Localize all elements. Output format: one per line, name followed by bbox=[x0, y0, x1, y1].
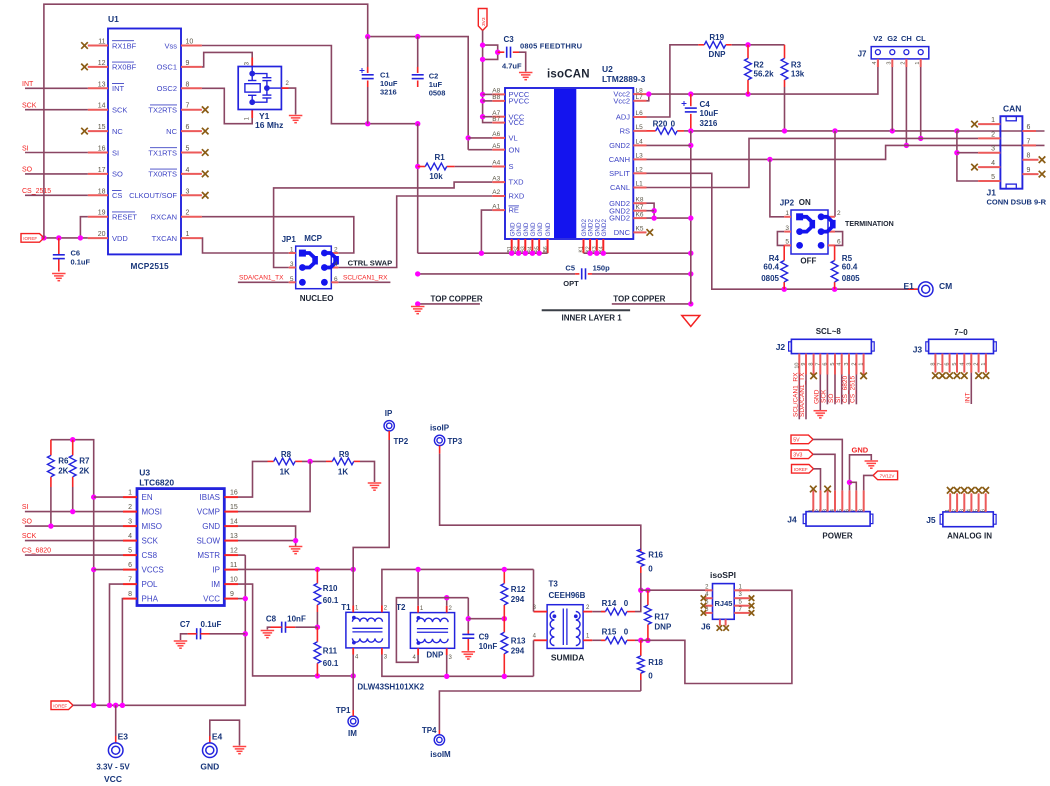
svg-text:TX2RTS: TX2RTS bbox=[148, 106, 177, 115]
svg-text:LTC6820: LTC6820 bbox=[139, 478, 174, 488]
wire T1 pin 4 to IM rail bbox=[352, 655, 354, 676]
svg-text:B7: B7 bbox=[492, 116, 500, 123]
svg-text:IP: IP bbox=[385, 409, 393, 418]
svg-text:C9: C9 bbox=[479, 633, 490, 642]
wire RESET to IOREF rail bbox=[80, 217, 87, 238]
svg-text:Vss: Vss bbox=[164, 41, 177, 50]
svg-text:3: 3 bbox=[186, 188, 190, 195]
U1 pin 5 (TX1RTS) stub bbox=[181, 152, 202, 154]
junction dot CH on CANH bbox=[904, 143, 909, 148]
svg-text:RXCAN: RXCAN bbox=[151, 213, 177, 222]
svg-text:INT: INT bbox=[965, 393, 972, 404]
U2 pin A6 (VL) stub bbox=[492, 137, 505, 139]
wire 5V flag to J4 pin 5 bbox=[813, 439, 842, 490]
ground symbol C8 bbox=[261, 631, 275, 638]
wire net CS_6820 to CS8 bbox=[25, 554, 123, 556]
C4 polarity + bbox=[682, 101, 687, 106]
svg-text:15: 15 bbox=[230, 504, 238, 511]
wire JP2 pins 3-5 loop bbox=[777, 232, 784, 246]
svg-text:L2: L2 bbox=[636, 167, 644, 174]
svg-text:B6: B6 bbox=[543, 246, 549, 252]
svg-text:B8: B8 bbox=[492, 94, 500, 101]
wire K7 tap bbox=[647, 210, 655, 212]
svg-text:5: 5 bbox=[952, 363, 958, 366]
svg-text:INT: INT bbox=[112, 84, 125, 93]
svg-text:7: 7 bbox=[1027, 138, 1031, 145]
resistor R7 zigzag bbox=[69, 455, 76, 476]
svg-text:60.4: 60.4 bbox=[763, 262, 779, 271]
svg-text:TP4: TP4 bbox=[422, 726, 437, 735]
wire net CS_2515 to U1 bbox=[25, 194, 88, 196]
svg-text:0: 0 bbox=[624, 628, 629, 637]
wire R15 to isoIM node bbox=[635, 639, 641, 641]
svg-text:E4: E4 bbox=[212, 732, 223, 742]
svg-text:SDA/CAN1_TX: SDA/CAN1_TX bbox=[799, 372, 806, 417]
svg-text:J3: J3 bbox=[913, 344, 923, 354]
T1 pin 4 stub bbox=[352, 648, 354, 655]
svg-text:OSC1: OSC1 bbox=[157, 63, 177, 72]
svg-text:K7: K7 bbox=[636, 204, 644, 211]
U2 pin L1 (CANL) stub bbox=[633, 187, 646, 189]
wire T1 pin 3 to isoIM-side rail bbox=[382, 655, 534, 677]
wire red lead into E1 bbox=[908, 288, 918, 290]
no-connect X J2 pin 8 bbox=[810, 373, 817, 380]
no-connect X RJ45 left pin bbox=[701, 610, 707, 616]
wire VCC to vertical bbox=[238, 598, 245, 600]
no-connect X J5 pin 6 bbox=[982, 487, 989, 494]
no-connect X J3 pin 2 bbox=[975, 372, 982, 379]
svg-text:SCL/CAN1_RX: SCL/CAN1_RX bbox=[343, 275, 388, 282]
capacitor C4 leads bbox=[690, 94, 692, 106]
svg-text:3: 3 bbox=[128, 519, 132, 526]
RJ45 left pin stubs bbox=[705, 590, 713, 613]
svg-text:CM: CM bbox=[939, 281, 952, 291]
U3 pin 8 (PHA) stub bbox=[123, 598, 137, 600]
U2 pin L4 (GND2) stub bbox=[633, 144, 646, 146]
svg-text:A3: A3 bbox=[492, 175, 500, 182]
svg-text:L7: L7 bbox=[636, 94, 644, 101]
wire L4 GND2 tap bbox=[647, 144, 691, 146]
svg-text:E1: E1 bbox=[904, 281, 915, 291]
svg-text:CANH: CANH bbox=[609, 155, 630, 164]
wire JP2 pin 2 to GND2 rail bbox=[834, 131, 836, 217]
U3 pin 15 (VCMP) stub bbox=[224, 511, 238, 513]
capacitor C8 plates bbox=[281, 622, 283, 633]
J3 pin stubs bbox=[935, 354, 986, 373]
wire R18 to TP4 bbox=[439, 691, 640, 730]
wire top rail C1-C2-VL bbox=[368, 37, 469, 150]
U1 pin 9 (OSC1) stub bbox=[181, 66, 202, 68]
svg-text:T3: T3 bbox=[549, 580, 559, 589]
U2 pin L8 (Vcc2) stub bbox=[633, 93, 646, 95]
U2 pin A1 (RE) stub bbox=[492, 209, 505, 211]
J1 left pin stubs bbox=[978, 124, 1000, 181]
turret TP1 (IM) bbox=[348, 716, 358, 726]
svg-text:POWER: POWER bbox=[822, 532, 852, 541]
wire C2 to R1 to GND rail bbox=[417, 124, 419, 254]
ground symbol C9 bbox=[462, 652, 476, 659]
svg-text:CS_2515: CS_2515 bbox=[850, 376, 857, 403]
svg-text:6: 6 bbox=[822, 363, 828, 366]
svg-text:3.3V - 5V: 3.3V - 5V bbox=[96, 763, 130, 772]
svg-text:5V: 5V bbox=[793, 438, 800, 444]
resistor R13 leads bbox=[503, 619, 505, 633]
ic U3 LTC6820 body bbox=[137, 489, 224, 606]
svg-text:J2: J2 bbox=[776, 342, 786, 352]
no-connect X J1 pin 9 bbox=[1039, 171, 1046, 178]
resistor R17 zigzag bbox=[645, 605, 652, 624]
Y1 pin 2 stub bbox=[281, 87, 288, 89]
svg-text:RX0BF: RX0BF bbox=[112, 63, 137, 72]
no-connect X on U1 right pin row 5 bbox=[202, 128, 209, 135]
svg-text:10: 10 bbox=[186, 39, 194, 46]
svg-text:2: 2 bbox=[128, 504, 132, 511]
svg-text:GND2: GND2 bbox=[601, 219, 608, 237]
wire SPLIT to termination rail bbox=[647, 173, 919, 289]
svg-text:2: 2 bbox=[952, 509, 958, 512]
U2 pin L3 (CANH) stub bbox=[633, 158, 646, 160]
U1 pin 19 (RESET) stub bbox=[88, 216, 108, 218]
wire CANH to J1 pin 7 bbox=[647, 145, 1045, 159]
junction dot T1 pin4 / TP1 bbox=[351, 673, 356, 678]
U3 pin 13 (SLOW) stub bbox=[224, 540, 238, 542]
U2 pin B7 (VCC) stub bbox=[492, 122, 505, 124]
resistor R16 zigzag bbox=[637, 549, 644, 566]
junction dot SLOW bbox=[293, 538, 298, 543]
resistor R18 leads bbox=[640, 640, 642, 656]
junction dot C3 loop bottom bbox=[480, 57, 485, 62]
ground symbol C7 bbox=[174, 641, 188, 648]
junction dot R20/C4 node bbox=[688, 128, 693, 133]
turret TP4 (isoIM) bbox=[434, 735, 444, 745]
svg-text:A4: A4 bbox=[492, 160, 500, 167]
wire net SI to MOSI bbox=[25, 511, 123, 513]
wire T2 pin 3 to isoIM rail bbox=[446, 655, 448, 676]
junction dot R1 left bbox=[415, 164, 420, 169]
power flag IOREF (J4) bbox=[792, 465, 814, 474]
junction dot rail PHA bbox=[120, 703, 125, 708]
svg-text:1: 1 bbox=[945, 509, 951, 512]
svg-text:5: 5 bbox=[128, 548, 132, 555]
junction dot C3 left lead bbox=[495, 50, 500, 55]
junction dot C6 tap bbox=[56, 235, 61, 240]
junction dot GND pin on rail bbox=[523, 251, 528, 256]
wire K6 to GND2 spine bbox=[647, 217, 691, 219]
no-connect X J5 pin 2 bbox=[954, 487, 961, 494]
wire C7 left to ground bbox=[188, 633, 197, 635]
U1 pin 4 (TX0RTS) stub bbox=[181, 173, 202, 175]
wire R1 to U2 pin A4 bbox=[455, 166, 493, 168]
junction dot mid node to divider bbox=[466, 616, 471, 621]
svg-text:MCP: MCP bbox=[304, 234, 322, 243]
resistor R7 leads bbox=[72, 440, 74, 456]
svg-text:3216: 3216 bbox=[380, 88, 397, 97]
svg-text:S: S bbox=[509, 162, 514, 171]
svg-text:OSC2: OSC2 bbox=[157, 84, 177, 93]
U1 pin 15 (NC) stub bbox=[88, 130, 108, 132]
junction dot A7 bbox=[480, 114, 485, 119]
svg-text:K1: K1 bbox=[579, 246, 585, 252]
U1 pin 7 (TX2RTS) stub bbox=[181, 109, 202, 111]
svg-text:CTRL SWAP: CTRL SWAP bbox=[348, 259, 393, 268]
junction dot top rail C1 bbox=[365, 34, 370, 39]
ground symbol R9 bbox=[368, 483, 382, 490]
U1 pin 18 (CS) stub bbox=[88, 194, 108, 196]
svg-text:SI: SI bbox=[835, 397, 842, 403]
wire TP3 to R16 bbox=[439, 446, 441, 454]
svg-text:13: 13 bbox=[98, 81, 106, 88]
wire net SCK to U3 bbox=[25, 540, 123, 542]
svg-text:2: 2 bbox=[837, 210, 841, 217]
J7 pin stubs bbox=[878, 59, 921, 67]
no-connect X J4 pin 3 bbox=[824, 486, 831, 493]
resistor R2 zigzag bbox=[745, 58, 752, 79]
svg-text:isoCAN: isoCAN bbox=[547, 69, 590, 81]
wire OSC1 to Y1 pin 3 bbox=[202, 52, 252, 67]
svg-text:NUCLEO: NUCLEO bbox=[300, 294, 334, 303]
U1 pin 3 (CLKOUT/SOF) stub bbox=[181, 194, 202, 196]
wire E3 to IOREF rail bbox=[115, 705, 117, 736]
svg-text:2: 2 bbox=[991, 131, 995, 138]
svg-text:R15: R15 bbox=[602, 628, 617, 637]
svg-text:9: 9 bbox=[186, 60, 190, 67]
J5 pin stubs bbox=[950, 493, 986, 512]
svg-text:TP2: TP2 bbox=[394, 437, 409, 446]
wire JP1 pin 6 net SCL/CAN1_RX bbox=[338, 281, 390, 283]
U1 pin 17 (SO) stub bbox=[88, 173, 108, 175]
svg-text:56.2k: 56.2k bbox=[754, 70, 775, 79]
wire SLOW tap bbox=[238, 540, 296, 542]
svg-text:4: 4 bbox=[334, 261, 338, 268]
svg-text:1K: 1K bbox=[280, 468, 290, 477]
junction dot K6 spine bbox=[688, 215, 693, 220]
wire R8-R9 node bbox=[302, 460, 326, 462]
svg-text:SCK: SCK bbox=[22, 103, 37, 110]
wire A7 tap bbox=[483, 116, 493, 118]
junction dot C3 loop top bbox=[480, 42, 485, 47]
U2 bottom GND2 pins K1-K4 bbox=[584, 239, 604, 253]
svg-text:INT: INT bbox=[22, 81, 34, 88]
T1 pin 1 stub bbox=[352, 606, 354, 613]
no-connect X RJ45 shield 2 bbox=[723, 625, 729, 631]
wire C3 to ground bbox=[519, 52, 526, 71]
capacitor C2 plates bbox=[412, 74, 424, 76]
no-connect X on U1 pin 11 bbox=[81, 42, 88, 49]
svg-text:0805: 0805 bbox=[761, 274, 779, 283]
wire isoIP to RJ45 pin 2 bbox=[648, 589, 705, 591]
junction dot TOP COPPER right bbox=[688, 301, 693, 306]
junction dot isoIM node A bbox=[638, 638, 643, 643]
U2 pin A8 (PVCC) stub bbox=[492, 93, 505, 95]
connector J6 RJ45 body bbox=[713, 584, 735, 620]
wire J4 pin 7 to gnd join bbox=[850, 482, 857, 490]
wire net SI to U1 bbox=[25, 152, 88, 154]
svg-text:20: 20 bbox=[98, 231, 106, 238]
wire IM to IM rail bbox=[238, 584, 353, 676]
svg-text:R19: R19 bbox=[709, 33, 724, 42]
no-connect X RJ45 left pin bbox=[701, 603, 707, 609]
no-connect X J5 pin 3 bbox=[961, 487, 968, 494]
wire 3V3 down to U2 PVCC/VCC bbox=[483, 31, 493, 123]
svg-text:0: 0 bbox=[648, 565, 653, 574]
T2 pin 3 stub bbox=[446, 648, 448, 655]
svg-text:R18: R18 bbox=[648, 658, 663, 667]
resistor R9 leads bbox=[326, 460, 332, 462]
svg-text:GND: GND bbox=[523, 222, 530, 236]
svg-text:NC: NC bbox=[166, 127, 177, 136]
wire GND2 spine (C4 to triangle) bbox=[690, 131, 692, 304]
svg-text:SI: SI bbox=[22, 145, 29, 152]
capacitor C1 leads bbox=[367, 37, 369, 73]
no-connect X on U1 pin 12 bbox=[81, 64, 88, 71]
U1 pin 1 (TXCAN) stub bbox=[181, 237, 202, 239]
wire isoIP node join bbox=[641, 589, 648, 591]
wire R6/R7 top rail bbox=[51, 440, 94, 706]
capacitor C3 plates bbox=[506, 47, 508, 58]
turret TP3 (isoIP) bbox=[434, 435, 444, 445]
wire J7 CL to CANL bbox=[920, 67, 922, 138]
connector J5 body bbox=[943, 512, 993, 527]
svg-text:6: 6 bbox=[945, 363, 951, 366]
connector J1 DSUB body bbox=[1000, 116, 1022, 189]
svg-text:R9: R9 bbox=[339, 450, 350, 459]
ic U2 LTM2889-3 body bbox=[505, 88, 633, 239]
T2 pin 2 stub bbox=[446, 606, 448, 613]
junction dot VCC tap bbox=[243, 596, 248, 601]
svg-text:IBIAS: IBIAS bbox=[200, 493, 220, 502]
resistor R20 zigzag bbox=[656, 127, 677, 134]
svg-text:J5: J5 bbox=[926, 515, 936, 525]
T1 pin 3 stub bbox=[381, 648, 383, 655]
svg-text:C6: C6 bbox=[71, 248, 81, 257]
svg-text:8: 8 bbox=[128, 591, 132, 598]
svg-text:6: 6 bbox=[1027, 124, 1031, 131]
no-connect X J4 pin 1 bbox=[810, 486, 817, 493]
wire net INT to U1 bbox=[25, 87, 88, 89]
junction dot GND2 pin on rail bbox=[601, 251, 606, 256]
svg-text:0: 0 bbox=[648, 671, 653, 680]
svg-text:2: 2 bbox=[186, 210, 190, 217]
no-connect X on U2 pin K5 DNC bbox=[647, 229, 654, 236]
svg-text:13k: 13k bbox=[791, 70, 805, 79]
U2 pin L2 (SPLIT) stub bbox=[633, 172, 646, 174]
svg-text:OPT: OPT bbox=[563, 279, 579, 288]
svg-text:SCK: SCK bbox=[22, 533, 37, 540]
resistor R8 zigzag bbox=[274, 458, 295, 465]
resistor R12 zigzag bbox=[501, 584, 508, 605]
resistor R3 leads bbox=[784, 45, 786, 59]
svg-text:SCK: SCK bbox=[821, 389, 828, 403]
U2 isolation barrier bar bbox=[554, 89, 576, 238]
junction dot R3 bottom bbox=[782, 128, 787, 133]
svg-text:SPLIT: SPLIT bbox=[609, 169, 630, 178]
junction dot JP2 pin2 vertical bbox=[832, 128, 837, 133]
svg-text:isoIP: isoIP bbox=[430, 424, 450, 433]
svg-text:SUMIDA: SUMIDA bbox=[551, 653, 585, 663]
J2 pin stubs bbox=[799, 354, 863, 375]
U1 pin 14 (SCK) stub bbox=[88, 109, 108, 111]
svg-text:JP2: JP2 bbox=[780, 199, 795, 208]
wire CANL to J1 pin 2 bbox=[647, 138, 979, 187]
resistor R14 leads bbox=[592, 611, 605, 613]
svg-text:10uF: 10uF bbox=[700, 109, 719, 118]
resistor R4 leads bbox=[783, 245, 785, 260]
svg-text:SCK: SCK bbox=[142, 537, 159, 546]
turret E4 bbox=[203, 743, 218, 758]
svg-text:NC: NC bbox=[112, 127, 123, 136]
svg-text:GND: GND bbox=[537, 222, 544, 236]
svg-text:R8: R8 bbox=[281, 450, 292, 459]
C1 polarity + bbox=[360, 68, 365, 73]
wire J7 G2 to GND2 rail bbox=[891, 67, 893, 131]
svg-text:RJ45: RJ45 bbox=[715, 599, 733, 608]
wire J1 gnd vertical pins 3/5 bbox=[957, 131, 978, 181]
svg-text:7: 7 bbox=[128, 577, 132, 584]
resistor R20 leads (RS) bbox=[647, 130, 656, 132]
junction dot TOP COPPER left bbox=[415, 301, 420, 306]
svg-text:19: 19 bbox=[98, 210, 106, 217]
wire IOREF flag to J4 pin 2 bbox=[814, 469, 821, 491]
RJ45 right pin stubs bbox=[734, 590, 750, 613]
svg-text:RXD: RXD bbox=[509, 192, 525, 201]
wire TP1 to IM rail bbox=[352, 676, 354, 710]
svg-text:VCMP: VCMP bbox=[197, 508, 220, 517]
junction dot rail R6R7 bbox=[91, 703, 96, 708]
no-connect X RJ45 shield 1 bbox=[717, 625, 723, 631]
junction dot isoIP node A bbox=[638, 588, 643, 593]
JP1 contacts bbox=[299, 250, 328, 286]
svg-text:7: 7 bbox=[851, 509, 857, 512]
svg-text:GND: GND bbox=[200, 762, 219, 772]
wire POL to IOREF rail bbox=[110, 584, 124, 705]
U1 pin 13 (INT) stub bbox=[88, 87, 108, 89]
resistor R8 leads bbox=[268, 460, 274, 462]
wire 3V3 flag to J4 pin 4 bbox=[813, 454, 835, 490]
junction dot J1 gnd vertical bbox=[954, 128, 959, 133]
wire U1 TXCAN to JP1 pin 1 bbox=[202, 238, 289, 253]
svg-text:A1: A1 bbox=[492, 203, 500, 210]
U2 pin A4 (S) stub bbox=[492, 166, 505, 168]
svg-text:SI: SI bbox=[22, 504, 29, 511]
svg-text:RESET: RESET bbox=[112, 213, 137, 222]
Y1 pin 3 stub bbox=[251, 58, 253, 67]
svg-text:INNER LAYER 1: INNER LAYER 1 bbox=[562, 314, 623, 323]
svg-text:SCL~8: SCL~8 bbox=[816, 327, 842, 336]
svg-text:5: 5 bbox=[991, 174, 995, 181]
U2 pin K8 (GND2) stub bbox=[633, 202, 646, 204]
svg-text:ON: ON bbox=[799, 198, 811, 207]
wire EN tap bbox=[94, 496, 123, 498]
junction dot GND2 pin on rail bbox=[594, 251, 599, 256]
wire net SCK to U1 bbox=[25, 109, 88, 111]
svg-text:2: 2 bbox=[851, 363, 857, 366]
JP2 pin stubs bbox=[784, 217, 835, 246]
svg-text:VCC: VCC bbox=[104, 774, 122, 784]
svg-text:A2: A2 bbox=[492, 189, 500, 196]
svg-text:R17: R17 bbox=[654, 613, 669, 622]
svg-text:R12: R12 bbox=[511, 585, 526, 594]
junction dot RESET tap bbox=[78, 235, 83, 240]
connector J2 body bbox=[791, 339, 871, 353]
svg-text:8: 8 bbox=[930, 363, 936, 366]
T3 pin 4 stub bbox=[534, 639, 548, 641]
wire J2 pin9 SDA/CAN1_TX bbox=[805, 375, 807, 420]
svg-text:IP: IP bbox=[212, 566, 220, 575]
svg-text:K8: K8 bbox=[636, 196, 644, 203]
svg-text:GND: GND bbox=[202, 522, 220, 531]
svg-text:3V3: 3V3 bbox=[481, 17, 487, 26]
JP1 pin stubs bbox=[289, 253, 339, 282]
